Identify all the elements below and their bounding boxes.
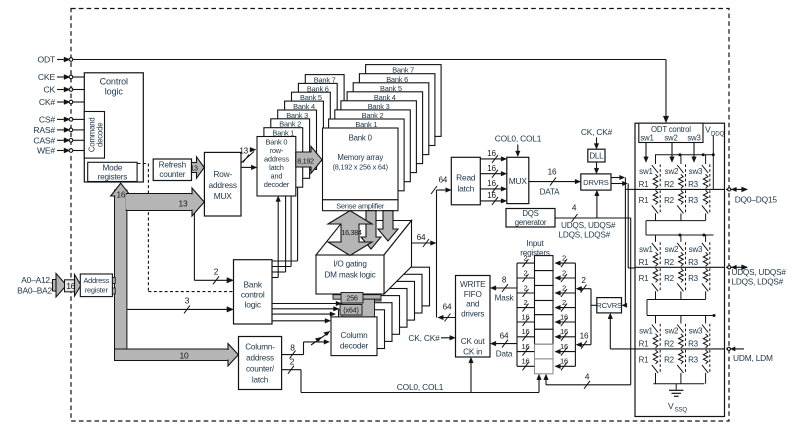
svg-text:256: 256 — [346, 294, 358, 303]
svg-text:logic: logic — [105, 87, 124, 97]
svg-text:16: 16 — [487, 191, 496, 200]
svg-text:R2: R2 — [664, 180, 675, 189]
svg-text:R1: R1 — [639, 180, 650, 189]
svg-text:generator: generator — [515, 218, 547, 227]
labels: UDQS/LDQS strobes — [559, 221, 616, 240]
wire: 64 from WRITE FIFO to data bus — [438, 303, 456, 322]
wires: read latch to MUX (4x16) — [480, 149, 506, 205]
svg-text:2: 2 — [523, 283, 527, 292]
svg-text:UDQS, UDQS#: UDQS, UDQS# — [732, 268, 787, 277]
svg-text:R1: R1 — [639, 196, 650, 205]
svg-text:CK: CK — [43, 85, 55, 95]
svg-text:UDM, LDM: UDM, LDM — [733, 353, 773, 363]
svg-text:2: 2 — [581, 276, 586, 285]
input pin CK# — [39, 97, 73, 107]
svg-text:13: 13 — [179, 199, 188, 209]
block: column decoder plane 7 (stacked) — [384, 267, 430, 306]
wire: 64 into Read latch — [431, 176, 451, 195]
svg-text:16: 16 — [487, 149, 496, 158]
svg-text:3: 3 — [185, 296, 190, 306]
svg-text:Column-: Column- — [245, 343, 275, 352]
wire: 8 Mask from registers to WRITE FIFO — [490, 276, 517, 303]
wire ODT to ODT control — [73, 60, 669, 123]
gray arrow slivers between stacks — [302, 134, 322, 151]
wire: DLL to DRVRS — [594, 162, 599, 174]
svg-text:Bank 0: Bank 0 — [349, 134, 373, 143]
svg-text:16: 16 — [521, 357, 529, 366]
pad: DQ0-DQ15 — [726, 187, 777, 204]
svg-text:sw3: sw3 — [689, 245, 703, 254]
svg-text:counter: counter — [159, 170, 185, 179]
block: input register cell 5 — [535, 315, 554, 330]
svg-text:RAS#: RAS# — [33, 125, 55, 135]
block: DQS generator — [506, 209, 555, 228]
block: Bank 4 row-address latch (stacked) — [285, 101, 324, 161]
svg-text:Read: Read — [456, 173, 476, 183]
gray tags: 256 and (x64) — [340, 293, 363, 316]
switch sw2 upper (DM group) — [665, 316, 686, 348]
svg-text:Row-: Row- — [213, 169, 232, 179]
svg-text:DRVRS: DRVRS — [583, 178, 609, 187]
svg-text:ODT: ODT — [37, 55, 55, 65]
wire: DQ group pad line — [635, 188, 725, 190]
block: ODT switch matrix outer box — [635, 123, 725, 416]
svg-text:R1: R1 — [639, 340, 650, 349]
wire RAS# into Command decode — [73, 129, 85, 131]
svg-text:R2: R2 — [664, 356, 675, 365]
resistor R2 lower (DM group) — [664, 350, 683, 365]
svg-text:2: 2 — [562, 298, 566, 307]
bus arrow: 16 up into Mode registers — [111, 183, 131, 200]
wire: group 2 bottom bus — [647, 300, 706, 316]
switch sw2 lower (DM group) — [677, 350, 685, 384]
resistor R3 upper (DM group) — [688, 334, 708, 349]
wires: bank control to row-address latch stack — [272, 170, 300, 278]
resistor R1 upper (DQS group) — [639, 252, 658, 267]
svg-text:Input: Input — [526, 239, 544, 248]
resistor R2 upper (DQS group) — [664, 252, 683, 267]
resistor R3 lower (DQS group) — [688, 268, 708, 283]
wire: group 1 bottom bus — [646, 221, 706, 235]
svg-text:latch: latch — [252, 376, 269, 385]
block: column decoder plane 1 (stacked) — [339, 310, 385, 349]
svg-text:CK, CK#: CK, CK# — [408, 333, 440, 343]
switch sw1 upper (DQ group) — [639, 155, 660, 189]
switch sw3 lower (DQS group) — [702, 268, 710, 299]
svg-text:control: control — [241, 290, 265, 300]
svg-text:A0–A12,: A0–A12, — [21, 275, 52, 285]
wire: 2 from counter down to COL line — [282, 357, 301, 393]
bus arrow: 8,192 from latch to memory array — [296, 146, 322, 173]
input pins A0-A12, BA0-BA2 — [17, 275, 52, 296]
svg-text:MUX: MUX — [509, 176, 528, 186]
block: WRITE FIFO and drivers — [456, 276, 491, 358]
wire: 16 DATA from MUX to DRVRS — [529, 168, 581, 197]
input pin CAS# — [33, 136, 72, 146]
svg-text:16: 16 — [560, 327, 568, 336]
svg-text:16: 16 — [580, 332, 589, 341]
block: DLL — [588, 149, 605, 162]
svg-text:4: 4 — [585, 372, 590, 381]
block: Bank 7 row-address latch (stacked) — [305, 75, 344, 135]
svg-text:16: 16 — [487, 164, 496, 173]
bus arrow: 16,384 sense amp to I/O gating (double headed) — [328, 211, 372, 256]
block: column decoder plane 5 (stacked) — [369, 281, 415, 320]
svg-text:Bank: Bank — [244, 280, 263, 290]
wire: group 3 bottom bus — [653, 383, 704, 385]
gray stepped arrows into I/O gating top — [361, 211, 398, 249]
block: Bank 5 memory array (stacked) — [353, 83, 429, 155]
svg-text:WE#: WE# — [37, 146, 55, 156]
svg-text:WRITE: WRITE — [460, 280, 486, 289]
svg-text:latch: latch — [457, 184, 474, 194]
pad: UDM, LDM — [726, 347, 773, 363]
svg-text:sw1: sw1 — [639, 167, 653, 176]
wire: VDDQ bus group 1 — [655, 136, 715, 190]
wire: 4 strobe line to registers clock — [544, 372, 631, 389]
svg-text:R3: R3 — [688, 180, 699, 189]
bus arrow: 10 to Column-address counter — [115, 344, 239, 367]
svg-text:8: 8 — [290, 343, 295, 353]
wire: 64 Data from registers to WRITE FIFO — [490, 331, 517, 358]
svg-text:FIFO: FIFO — [464, 290, 482, 299]
input pin CK — [43, 85, 72, 95]
svg-text:register: register — [85, 286, 109, 295]
svg-text:sw1: sw1 — [639, 245, 653, 254]
svg-text:16,384: 16,384 — [341, 228, 361, 237]
wire CK# into Control logic — [73, 101, 85, 103]
block: Row-address MUX — [204, 152, 241, 216]
resistor R2 upper (DM group) — [664, 334, 683, 349]
switch sw2 upper (DQS group) — [665, 235, 686, 266]
block: input register cell 7 — [535, 344, 554, 359]
svg-text:Sense amplifier: Sense amplifier — [336, 202, 385, 211]
block: Column decoder — [331, 317, 377, 356]
svg-text:decoder: decoder — [264, 180, 290, 189]
wire: row-address MUX to latch (13) — [239, 147, 256, 170]
svg-text:R3: R3 — [688, 274, 699, 283]
svg-text:R3: R3 — [688, 356, 699, 365]
svg-text:16: 16 — [487, 179, 496, 188]
svg-text:sw2: sw2 — [664, 134, 677, 143]
block: ODT control — [639, 123, 703, 143]
wire: 64 from I/O gating to read/write bus — [412, 233, 437, 247]
block: Bank 3 memory array (stacked) — [341, 101, 417, 173]
svg-text:Data: Data — [496, 350, 513, 359]
svg-text:2: 2 — [523, 298, 527, 307]
block: Refresh counter — [153, 159, 191, 181]
svg-text:R2: R2 — [664, 340, 675, 349]
svg-text:DQ0–DQ15: DQ0–DQ15 — [735, 194, 778, 204]
wire: DRVRS output to DQS rail — [611, 181, 628, 268]
block: column decoder plane 6 (stacked) — [376, 274, 422, 313]
svg-text:decoder: decoder — [340, 341, 369, 350]
svg-text:sw2: sw2 — [665, 327, 679, 336]
svg-text:13: 13 — [190, 164, 198, 173]
switch sw3 upper (DQS group) — [689, 235, 710, 266]
ground and VSSQ — [668, 384, 687, 414]
svg-text:decode: decode — [96, 123, 105, 147]
block: Command decode (rotated label) — [84, 112, 104, 159]
wire: 16 feed from RCVRS to bottom rail — [576, 332, 591, 349]
switch sw3 lower (DQ group) — [702, 190, 710, 220]
block: Control logic — [84, 73, 143, 182]
input pin CKE — [38, 72, 73, 82]
block: Mode registers — [88, 162, 137, 181]
svg-text:CAS#: CAS# — [33, 136, 55, 146]
svg-text:LDQS, LDQS#: LDQS, LDQS# — [559, 231, 611, 240]
svg-text:R1: R1 — [639, 258, 650, 267]
block: Bank 6 row-address latch (stacked) — [298, 83, 337, 142]
resistor R1 lower (DM group) — [639, 350, 658, 365]
svg-text:R3: R3 — [688, 258, 699, 267]
switch sw3 upper (DM group) — [689, 316, 710, 348]
block: column decoder plane 4 (stacked) — [361, 289, 407, 328]
svg-text:R3: R3 — [688, 340, 699, 349]
svg-text:DQS: DQS — [522, 209, 538, 218]
svg-text:2: 2 — [523, 268, 527, 277]
svg-text:16: 16 — [117, 191, 126, 200]
svg-text:Mode: Mode — [103, 163, 123, 172]
svg-text:counter/: counter/ — [246, 365, 275, 374]
wire CS# into Command decode — [73, 118, 85, 120]
wires: input register left taps to mask/data rail — [517, 254, 535, 371]
svg-text:(8,192 x 256 x 64): (8,192 x 256 x 64) — [333, 163, 388, 172]
wire CK into Control logic — [73, 89, 85, 91]
block: I/O gating DM mask logic (3D) — [316, 221, 412, 295]
svg-text:R3: R3 — [688, 196, 699, 205]
svg-text:Column: Column — [340, 331, 368, 340]
block: RCVRS — [596, 298, 622, 313]
wire: DQS line to switch matrix — [628, 267, 635, 269]
svg-text:R2: R2 — [664, 274, 675, 283]
wire: COL0, COL1 line — [301, 357, 541, 392]
svg-text:64: 64 — [500, 331, 509, 340]
wire: RCVRS output rail — [591, 289, 597, 345]
wire CKE into Control logic — [73, 76, 85, 78]
input pin CS# — [39, 115, 73, 125]
bus stubs: address register to bus — [112, 278, 115, 295]
svg-text:SSQ: SSQ — [675, 407, 688, 414]
svg-text:sw3: sw3 — [687, 134, 700, 143]
svg-text:Address: Address — [83, 276, 109, 285]
block: Bank 7 memory array (stacked) — [366, 65, 442, 137]
switch sw1 lower (DM group) — [652, 350, 660, 384]
svg-text:and: and — [466, 300, 480, 309]
label+wire: COL0, COL1 into MUX — [495, 134, 542, 157]
svg-text:CK, CK#: CK, CK# — [581, 127, 613, 137]
wire: group 2 top bus — [646, 234, 714, 237]
block: DRVRS — [581, 174, 611, 190]
block: input register cell 2 — [535, 271, 554, 286]
svg-text:COL0, COL1: COL0, COL1 — [397, 382, 444, 392]
block: Bank 2 memory array (stacked) — [335, 110, 411, 182]
label+wire: CK, CK# into DLL — [581, 127, 613, 149]
wires: input register right feeds from receivers — [555, 254, 576, 371]
wire: group 3 top bus — [647, 314, 716, 317]
block: input register cell 8 — [535, 359, 554, 374]
wire: DM line to RCVRS — [608, 313, 635, 349]
block: Bank 4 memory array (stacked) — [347, 92, 423, 164]
svg-text:16: 16 — [548, 168, 557, 177]
svg-text:COL0, COL1: COL0, COL1 — [495, 134, 542, 144]
svg-text:2: 2 — [562, 283, 566, 292]
wire: DRVRS output to DQ rail — [611, 175, 627, 307]
svg-text:CS#: CS# — [39, 115, 56, 125]
svg-text:16: 16 — [560, 357, 568, 366]
wire: DQS group pad line — [635, 266, 725, 268]
wires: ODT control outputs to switches — [644, 143, 697, 163]
resistor R3 lower (DM group) — [688, 350, 708, 365]
svg-text:16: 16 — [560, 312, 568, 321]
block: Bank 0 row-address latch and decoder — [257, 137, 296, 197]
svg-text:CK#: CK# — [39, 97, 56, 107]
pad: UDQS/LDQS — [726, 265, 786, 287]
svg-text:ODT control: ODT control — [651, 125, 691, 134]
svg-text:I/O gating: I/O gating — [333, 260, 367, 269]
svg-text:8,192: 8,192 — [297, 156, 314, 165]
svg-text:DLL: DLL — [589, 152, 604, 161]
block: Bank 5 row-address latch (stacked) — [292, 92, 331, 152]
svg-text:Memory array: Memory array — [337, 153, 383, 162]
resistor R2 lower (DQS group) — [664, 268, 683, 283]
wires: bank control to column decoder stack — [272, 301, 342, 323]
svg-text:drivers: drivers — [461, 309, 484, 318]
bus: address register vertical gray bus — [115, 190, 127, 354]
wire: 8 from counter up into column decoder planes — [282, 331, 330, 358]
svg-text:13: 13 — [239, 147, 248, 156]
svg-text:sw1: sw1 — [639, 327, 653, 336]
svg-text:R1: R1 — [639, 356, 650, 365]
resistor R3 upper (DQ group) — [688, 174, 708, 189]
wire: 64 vertical data bus — [436, 190, 438, 318]
wire CAS# into Command decode — [73, 139, 85, 141]
switch sw1 lower (DQ group) — [652, 190, 660, 220]
svg-text:2: 2 — [214, 267, 219, 277]
svg-text:LDQS, LDQS#: LDQS, LDQS# — [732, 278, 784, 287]
svg-text:logic: logic — [245, 300, 261, 310]
switch sw3 lower (DM group) — [702, 350, 710, 384]
svg-text:MUX: MUX — [214, 191, 233, 201]
block: Sense amplifier — [323, 200, 399, 211]
switch sw3 upper (DQ group) — [689, 155, 710, 189]
svg-text:address: address — [208, 180, 236, 190]
resistor R2 lower (DQ group) — [664, 190, 683, 205]
svg-text:DM mask logic: DM mask logic — [324, 271, 375, 280]
wire: 3 from address bus to Bank control logic — [127, 296, 233, 314]
block: Bank 1 memory array (stacked) — [329, 119, 405, 191]
wire: DM group pad line — [635, 348, 725, 350]
svg-text:8: 8 — [502, 276, 507, 285]
svg-text:V: V — [668, 401, 674, 411]
switch sw2 lower (DQ group) — [677, 190, 685, 220]
switch sw2 lower (DQS group) — [677, 268, 685, 299]
block: Bank 0 memory array — [323, 128, 399, 200]
svg-text:64: 64 — [438, 176, 447, 185]
bus arrow: refresh counter to row-address MUX (13) — [190, 157, 204, 178]
svg-text:4: 4 — [572, 204, 577, 213]
svg-text:Refresh: Refresh — [159, 161, 187, 170]
svg-text:address: address — [246, 354, 274, 363]
bus arrow: 13 to Row-address MUX — [126, 188, 204, 216]
block: input register cell 6 — [535, 329, 554, 344]
svg-text:Control: Control — [100, 77, 128, 87]
svg-text:CKE: CKE — [38, 72, 56, 82]
svg-text:UDQS, UDQS#: UDQS, UDQS# — [561, 221, 616, 230]
wire: DQ line to switch matrix — [625, 188, 635, 190]
svg-text:sw3: sw3 — [689, 167, 703, 176]
svg-text:sw3: sw3 — [689, 327, 703, 336]
wire: 2 from row bus to Bank control logic — [194, 214, 233, 285]
svg-text:2: 2 — [523, 254, 527, 263]
svg-text:CK out: CK out — [461, 337, 486, 346]
switch sw1 upper (DQS group) — [639, 235, 660, 266]
label: Input registers — [520, 239, 550, 257]
svg-text:16: 16 — [560, 342, 568, 351]
resistor R3 upper (DQS group) — [688, 252, 708, 267]
block: column decoder plane 3 (stacked) — [354, 296, 400, 335]
svg-text:(x64): (x64) — [343, 306, 358, 315]
block: Read latch — [451, 157, 480, 205]
resistor R1 upper (DM group) — [639, 334, 658, 349]
block: Column-address counter/latch — [239, 337, 282, 390]
resistor R2 upper (DQ group) — [664, 174, 683, 189]
block: Bank 6 memory array (stacked) — [359, 74, 435, 146]
resistor R3 lower (DQ group) — [688, 190, 708, 205]
block: MUX — [507, 157, 529, 203]
switch sw1 upper (DM group) — [639, 316, 660, 348]
input pin WE# — [37, 146, 73, 156]
svg-text:64: 64 — [443, 303, 452, 312]
svg-text:DATA: DATA — [540, 188, 561, 197]
resistor R1 lower (DQS group) — [639, 268, 658, 283]
svg-text:RCVRS: RCVRS — [596, 301, 622, 310]
wire: 2 feed from RCVRS to top rail — [576, 276, 591, 293]
svg-text:sw1: sw1 — [640, 134, 653, 143]
svg-text:2: 2 — [562, 254, 566, 263]
dashed wire: mode registers to bank control logic — [138, 164, 233, 292]
chip boundary (dashed border) — [71, 9, 729, 422]
wire WE# into Command decode — [73, 150, 85, 152]
svg-text:R2: R2 — [664, 196, 675, 205]
gray bus arrow column decoder to I/O gating — [333, 295, 381, 318]
block: column decoder plane 2 (stacked) — [346, 303, 392, 342]
svg-text:2: 2 — [290, 357, 295, 367]
svg-text:R2: R2 — [664, 258, 675, 267]
wire: DQS generator up to DRVRS — [595, 190, 600, 218]
block: Bank control logic — [234, 260, 273, 324]
svg-text:CK in: CK in — [463, 348, 483, 357]
svg-text:2: 2 — [562, 268, 566, 277]
svg-text:16: 16 — [521, 312, 529, 321]
svg-text:64: 64 — [417, 233, 426, 242]
svg-text:registers: registers — [98, 172, 128, 181]
label: VDDQ — [705, 125, 725, 138]
switch sw1 lower (DQS group) — [652, 268, 660, 299]
label+wire: CK, CK# into WRITE FIFO — [408, 333, 455, 343]
svg-text:16: 16 — [521, 342, 529, 351]
block: input register cell 1 — [535, 256, 554, 271]
block: Bank 1 row-address latch (stacked) — [264, 128, 303, 188]
svg-text:sw2: sw2 — [665, 167, 679, 176]
wire: DQS generator 4 to pads loop — [555, 204, 631, 385]
block: Bank 2 row-address latch (stacked) — [271, 119, 310, 179]
resistor R1 upper (DQ group) — [639, 174, 658, 189]
input pin RAS# — [33, 125, 72, 135]
svg-text:16: 16 — [521, 327, 529, 336]
svg-text:Mask: Mask — [495, 294, 515, 303]
svg-text:BA0–BA2: BA0–BA2 — [17, 286, 52, 296]
